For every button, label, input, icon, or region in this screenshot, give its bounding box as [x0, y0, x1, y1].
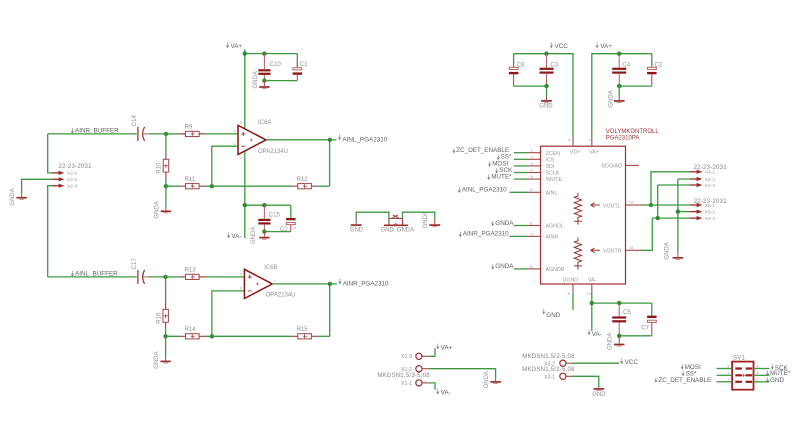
svg-text:C17: C17	[132, 258, 138, 270]
svg-text:7: 7	[630, 161, 632, 165]
node VA- junction	[590, 301, 594, 305]
label ZC_DET_ENABLE at SV1	[655, 377, 712, 384]
ground GNDA below connectors	[665, 242, 684, 259]
label AINR_BUFFER	[71, 128, 119, 135]
svg-text:C1: C1	[300, 62, 308, 68]
svg-text:VD+: VD+	[570, 150, 580, 156]
wire SV1 pin1	[717, 381, 733, 383]
svg-text:5: 5	[240, 272, 242, 276]
ground GNDA left	[10, 188, 27, 205]
svg-text:AINL_PGA2310: AINL_PGA2310	[462, 187, 507, 194]
svg-text:GNDA: GNDA	[665, 242, 671, 259]
op-amp IC6B	[240, 265, 296, 299]
svg-text:VA+: VA+	[231, 43, 243, 50]
svg-text:X1-2: X1-2	[401, 367, 412, 373]
capacitor C10	[258, 54, 281, 81]
pin X3-1	[544, 373, 572, 380]
pin X5-1	[690, 203, 715, 209]
pin DGND bottom	[563, 278, 579, 296]
svg-text:1: 1	[531, 149, 533, 153]
svg-text:C2: C2	[280, 227, 288, 233]
node R10 bottom junction	[164, 184, 168, 188]
svg-text:2: 2	[531, 155, 533, 159]
wire C15 bottom to C2 bottom	[264, 231, 290, 233]
label SCK at SV1	[771, 364, 788, 372]
wire AINL_BUFFER row	[48, 276, 137, 278]
node C15 top junction	[262, 203, 266, 207]
wire feedback up to output	[329, 140, 331, 186]
SV1 pin pads	[735, 367, 752, 383]
SV1 origin cross	[742, 374, 745, 377]
ground GNDA right	[423, 211, 440, 228]
node VCC junction	[544, 52, 548, 56]
svg-text:C15: C15	[269, 212, 281, 218]
svg-text:10: 10	[529, 188, 533, 192]
svg-text:GNDA: GNDA	[154, 351, 160, 368]
pin X4-3	[690, 183, 715, 189]
svg-text:/MUTE: /MUTE	[546, 177, 563, 183]
svg-text:3: 3	[727, 371, 729, 375]
svg-text:R15: R15	[297, 327, 309, 333]
resistor R12	[292, 177, 330, 189]
svg-text:AINR: AINR	[546, 235, 559, 241]
wire VA+ top rail	[245, 53, 298, 55]
svg-text:VA+: VA+	[600, 43, 612, 50]
svg-text:MKDSN1,5/3-5,08: MKDSN1,5/3-5,08	[377, 373, 430, 379]
label MUTE*	[488, 174, 513, 181]
svg-text:VA-: VA-	[588, 278, 597, 284]
svg-text:GNDA: GNDA	[10, 188, 16, 205]
capacitor C8	[509, 54, 525, 86]
node VOUTL junction	[649, 203, 653, 207]
svg-text:GNDA: GNDA	[397, 228, 414, 234]
svg-text:13: 13	[629, 246, 633, 250]
pin X5-2	[690, 209, 715, 215]
wire R11 junction to R12	[212, 185, 292, 187]
wire X3-2 to VCC	[572, 362, 619, 364]
pin VA+ top	[589, 138, 599, 156]
svg-text:R12: R12	[297, 177, 309, 183]
pin 1 ZCEN	[514, 149, 560, 157]
svg-text:GNDA: GNDA	[608, 90, 614, 107]
resistor R11	[166, 177, 212, 189]
svg-text:X5-1: X5-1	[705, 203, 715, 209]
resistor R13	[166, 268, 206, 280]
wire inverting node to -in	[212, 146, 238, 186]
capacitor C1	[293, 54, 309, 81]
ground GND below X3-1	[592, 387, 606, 398]
svg-text:AINL: AINL	[546, 190, 558, 196]
capacitor C5	[612, 303, 631, 336]
wire VOUTL to connectors	[641, 204, 651, 206]
label SCK	[496, 167, 513, 174]
svg-text:GNDA: GNDA	[495, 220, 514, 227]
node VA+ junction	[243, 51, 247, 55]
svg-text:X2-1: X2-1	[67, 171, 77, 177]
svg-text:1: 1	[727, 378, 729, 382]
label GND at SV1	[766, 377, 784, 384]
svg-text:X2-3: X2-3	[67, 184, 77, 190]
label MOSI at SV1	[681, 364, 701, 371]
svg-text:14: 14	[629, 201, 633, 205]
pin X3-2	[544, 360, 572, 367]
wire R9 to op-amp +in	[206, 133, 239, 135]
pin 11 AGNDL	[514, 221, 564, 229]
pin VA- bottom	[587, 278, 597, 296]
svg-text:C5: C5	[623, 310, 631, 316]
svg-text:VA+: VA+	[441, 344, 453, 351]
wire SV1 pin4	[754, 374, 770, 376]
svg-text:8: 8	[240, 120, 242, 124]
svg-text:5: 5	[727, 364, 729, 368]
svg-text:GNDA: GNDA	[253, 71, 259, 88]
svg-text:/CS: /CS	[546, 157, 555, 163]
svg-text:R13: R13	[185, 268, 197, 274]
svg-text:1: 1	[267, 135, 269, 139]
svg-text:X3-1: X3-1	[544, 375, 555, 381]
svg-text:GND: GND	[539, 103, 553, 109]
svg-text:GNDA: GNDA	[251, 227, 257, 244]
svg-text:X4-1: X4-1	[705, 170, 715, 176]
pin X5-3	[690, 216, 715, 222]
resistor R15	[292, 327, 330, 339]
svg-text:X4-3: X4-3	[705, 183, 715, 189]
pin X2-2	[52, 177, 77, 183]
label GND at DGND	[543, 309, 561, 319]
resistor R14	[166, 327, 212, 339]
capacitor C17	[132, 258, 165, 284]
svg-text:ZC_DET_ENABLE: ZC_DET_ENABLE	[658, 377, 711, 384]
pin X1-3	[401, 353, 429, 360]
label MOSI	[489, 160, 509, 167]
svg-text:VA-: VA-	[592, 331, 602, 338]
svg-text:R14: R14	[185, 327, 197, 333]
wire GNDA right branch	[403, 212, 435, 218]
net tie GND/GNDA bridge	[381, 215, 415, 234]
header SV1 box	[732, 362, 753, 390]
wire VA- rail	[245, 204, 291, 206]
svg-text:C2: C2	[655, 63, 663, 69]
wire X1-2 to GNDA	[429, 369, 496, 379]
ground GND left	[350, 218, 364, 234]
svg-text:9: 9	[531, 232, 533, 236]
svg-text:AINR_PGA2310: AINR_PGA2310	[343, 281, 389, 288]
resistor R9	[166, 125, 206, 137]
wire AINR_BUFFER row	[48, 133, 137, 135]
resistor R16	[156, 277, 168, 336]
pin 4 SCLK	[514, 168, 560, 176]
wire VA- down and right	[591, 292, 593, 331]
svg-text:22-23-2031: 22-23-2031	[59, 164, 93, 170]
svg-text:MKDSN1,5/2-5,08: MKDSN1,5/2-5,08	[522, 367, 575, 373]
svg-text:GNDA: GNDA	[495, 263, 514, 270]
svg-text:R11: R11	[185, 177, 196, 183]
pin 12 AGNDR	[514, 265, 565, 273]
wire R13 to op-amp +in	[206, 276, 245, 278]
svg-text:SV1: SV1	[733, 355, 746, 361]
wire GND left branch	[356, 212, 389, 218]
node C14/R9/R10 junction	[164, 132, 168, 136]
pin X1-1	[401, 380, 429, 387]
svg-text:11: 11	[529, 221, 533, 225]
svg-text:4: 4	[757, 371, 759, 375]
svg-text:12: 12	[529, 265, 533, 269]
wire output stub	[330, 283, 337, 285]
svg-text:VA-: VA-	[231, 233, 241, 240]
capacitor C14	[132, 115, 166, 141]
wire output stub	[330, 139, 337, 141]
node C10 bottom junction	[262, 78, 266, 82]
svg-text:X4-2: X4-2	[705, 177, 715, 183]
label AINR_PGA2310 at IC	[459, 231, 509, 238]
node output junction	[328, 282, 332, 286]
pin 9 AINR	[510, 232, 559, 240]
svg-text:2: 2	[589, 138, 591, 142]
pot VOL R inside	[574, 238, 622, 270]
wire SV1 pin5	[717, 368, 733, 370]
svg-text:OPA2134U: OPA2134U	[258, 149, 288, 155]
supply VCC label	[550, 43, 568, 51]
svg-text:GNDA: GNDA	[484, 371, 490, 388]
label AINL_BUFFER	[71, 271, 118, 278]
svg-text:IC6B: IC6B	[264, 265, 277, 271]
svg-text:VOUTR: VOUTR	[603, 249, 622, 255]
node C4 bottom junction	[617, 84, 621, 88]
ground GNDA below X1-2	[484, 371, 501, 388]
wire X4-3 down to X5-3 row	[652, 185, 690, 218]
svg-text:3: 3	[531, 162, 533, 166]
node C5 top junction	[617, 301, 621, 305]
ground GNDA below C4	[608, 86, 624, 108]
svg-text:3: 3	[234, 129, 236, 133]
capacitor C7	[641, 303, 656, 336]
node R11/R12 inverting junction	[210, 184, 214, 188]
svg-text:VA-: VA-	[441, 389, 451, 396]
pin 5 /MUTE	[514, 175, 563, 183]
svg-text:4: 4	[568, 138, 570, 142]
wire X2-2 to GNDA	[22, 179, 52, 193]
svg-text:MUTE*: MUTE*	[491, 174, 512, 181]
capacitor C15	[258, 205, 280, 231]
capacitor C4	[612, 54, 631, 86]
wire X2-3 to AINL_BUFFER row	[48, 186, 52, 277]
wire C5 bottom to C7 bottom	[619, 335, 652, 337]
svg-text:R10: R10	[157, 162, 163, 174]
svg-text:5: 5	[531, 175, 533, 179]
ground GNDA below R16	[154, 336, 171, 368]
node C5 bottom junction	[617, 334, 621, 338]
svg-text:C14: C14	[132, 115, 138, 127]
label GNDA at AGNDL	[492, 220, 515, 227]
node C3 bottom junction	[544, 84, 548, 88]
svg-text:C7: C7	[641, 325, 649, 331]
label SS*	[497, 154, 512, 161]
svg-text:MKDSN1,5/2-5,08: MKDSN1,5/2-5,08	[522, 354, 575, 360]
pin X4-2	[690, 177, 715, 183]
label AINR_PGA2310	[339, 279, 389, 288]
svg-text:GND: GND	[350, 228, 364, 234]
svg-text:6: 6	[240, 287, 242, 291]
supply VA+ label right	[596, 43, 612, 51]
pin X2-3	[52, 184, 77, 190]
pin X1-2	[401, 366, 429, 373]
node R16 bottom junction	[163, 334, 167, 338]
supply VA+ label	[226, 43, 242, 51]
svg-text:PGA2310PA: PGA2310PA	[606, 136, 640, 142]
svg-text:R9: R9	[185, 125, 193, 131]
wire VA+ rail right	[592, 54, 652, 138]
node VA- junction	[243, 203, 247, 207]
svg-text:2: 2	[234, 142, 236, 146]
svg-text:13: 13	[587, 292, 591, 296]
node GNDA junction X5-2	[676, 209, 680, 213]
svg-text:AGNDL: AGNDL	[546, 224, 564, 230]
wire SV1 pin2	[754, 381, 770, 383]
wire X3-1 to GND	[572, 376, 599, 387]
svg-text:GND: GND	[592, 392, 606, 398]
svg-text:SDI: SDI	[546, 164, 555, 170]
ground GNDA below C5	[608, 333, 625, 350]
svg-text:GND: GND	[770, 377, 784, 384]
wire X1-3 to VA+	[429, 348, 435, 356]
pin 14 VOUTL right	[626, 201, 642, 206]
pin 10 AINL	[510, 188, 558, 196]
wire C10 bottom to C1 bottom	[264, 80, 297, 82]
wire X1-1 to VA-	[429, 383, 435, 390]
wire DGND down	[572, 292, 574, 310]
svg-text:C3: C3	[550, 63, 558, 69]
wire VOUTL to X5-1	[651, 204, 691, 206]
svg-text:IC6A: IC6A	[258, 120, 271, 126]
wire X2-1 to AINR_BUFFER row	[48, 134, 52, 173]
resistor R10	[157, 134, 169, 186]
label AINL_PGA2310	[338, 135, 387, 144]
svg-text:4: 4	[531, 168, 533, 172]
svg-text:X5-2: X5-2	[705, 209, 715, 215]
wire op-amp output	[266, 139, 330, 141]
ground GNDA below C15	[251, 227, 270, 244]
svg-text:GNDA: GNDA	[154, 201, 160, 218]
svg-text:DGND: DGND	[563, 278, 579, 284]
wire feedback up to output	[329, 284, 331, 336]
label ZC_DET_ENABLE	[453, 147, 509, 154]
wire VCC rail	[514, 54, 573, 138]
capacitor C2 electrolytic right	[647, 54, 663, 86]
svg-text:6: 6	[757, 364, 759, 368]
pin 6 SDO right stub	[602, 161, 640, 170]
svg-text:C8: C8	[517, 63, 525, 69]
pin X2-1	[52, 171, 77, 177]
svg-text:C4: C4	[622, 63, 630, 69]
pot VOL L inside	[574, 193, 621, 225]
capacitor C3	[540, 54, 559, 86]
node C15 bottom junction	[262, 229, 266, 233]
svg-text:GNDA: GNDA	[423, 211, 429, 228]
svg-text:7: 7	[274, 279, 276, 283]
label VA- bottom IC	[588, 330, 602, 339]
svg-text:GNDA: GNDA	[608, 333, 614, 350]
wire SV1 pin3	[717, 374, 733, 376]
wire GNDA vertical X4-2/X5-2	[678, 179, 691, 252]
node C17/R13/R16 junction	[163, 275, 167, 279]
svg-text:C10: C10	[270, 62, 282, 68]
svg-text:2: 2	[757, 378, 759, 382]
label GNDA at AGNDR	[492, 263, 515, 270]
wire inverting node to -in	[212, 291, 245, 336]
svg-text:GND: GND	[546, 312, 560, 319]
wire VA- rail to C7	[592, 302, 652, 304]
pin VD+ top	[568, 138, 580, 156]
label SS* at SV1	[682, 370, 697, 377]
pin X4-1	[690, 170, 715, 176]
wire C8 bottom rail	[514, 85, 547, 87]
svg-text:AGNDR: AGNDR	[546, 267, 565, 273]
content groups appended below	[48, 43, 388, 245]
node output junction	[328, 138, 332, 142]
wire VOUTL up to X4-1	[651, 172, 691, 205]
pin 2 /CS	[514, 155, 555, 163]
pin 3 SDI	[514, 162, 554, 170]
label MUTE* at SV1	[766, 370, 791, 377]
label VA- at X1-1	[437, 389, 451, 397]
svg-text:ZCEN: ZCEN	[546, 151, 561, 157]
svg-text:X1-1: X1-1	[401, 381, 412, 387]
svg-text:8: 8	[568, 292, 570, 296]
svg-text:X5-3: X5-3	[705, 216, 715, 222]
svg-text:SDO/AO: SDO/AO	[602, 164, 623, 170]
svg-text:4: 4	[240, 157, 242, 161]
svg-text:AINR_PGA2310: AINR_PGA2310	[463, 231, 509, 238]
svg-text:AINL_PGA2310: AINL_PGA2310	[342, 137, 387, 144]
ground GNDA below R10	[154, 186, 171, 218]
wire VA+ vertical rail through op-amp	[244, 50, 246, 239]
ground GND below C3	[539, 86, 553, 109]
svg-text:VOUTL: VOUTL	[603, 203, 621, 209]
wire C4 bottom rail	[619, 85, 652, 87]
label AINL_PGA2310 at IC	[458, 187, 507, 194]
ground GNDA below C10	[253, 71, 270, 88]
node C10 top junction	[262, 51, 266, 55]
svg-text:R16: R16	[156, 312, 162, 324]
label VA+ at X1-3	[437, 344, 453, 352]
node R14/R15 inverting junction	[210, 334, 214, 338]
wire SV1 pin6	[754, 368, 770, 370]
svg-text:VA+: VA+	[589, 150, 599, 156]
wire R14 junction to R15	[212, 335, 292, 337]
capacitor C2	[280, 205, 296, 233]
node VA+ junction right	[617, 52, 621, 56]
svg-text:VOLYMKONTROLL: VOLYMKONTROLL	[606, 129, 660, 135]
svg-text:SCLK: SCLK	[546, 171, 560, 177]
label VCC at X3-2	[621, 358, 639, 366]
pin 13 VOUTR right	[626, 246, 642, 251]
wire VOUTR elbow	[641, 218, 652, 250]
label VA- bottom	[227, 233, 241, 241]
node VOUTR junction	[656, 216, 660, 220]
svg-text:VCC: VCC	[625, 359, 639, 366]
IC U1 PGA2310 box	[541, 146, 626, 284]
svg-text:VCC: VCC	[555, 43, 569, 50]
wire op-amp output	[272, 283, 330, 285]
svg-text:X1-3: X1-3	[401, 354, 412, 360]
svg-text:OPA2134U: OPA2134U	[266, 293, 296, 299]
svg-text:X2-2: X2-2	[67, 177, 77, 183]
svg-text:GND: GND	[381, 228, 395, 234]
op-amp IC6A	[234, 120, 288, 161]
